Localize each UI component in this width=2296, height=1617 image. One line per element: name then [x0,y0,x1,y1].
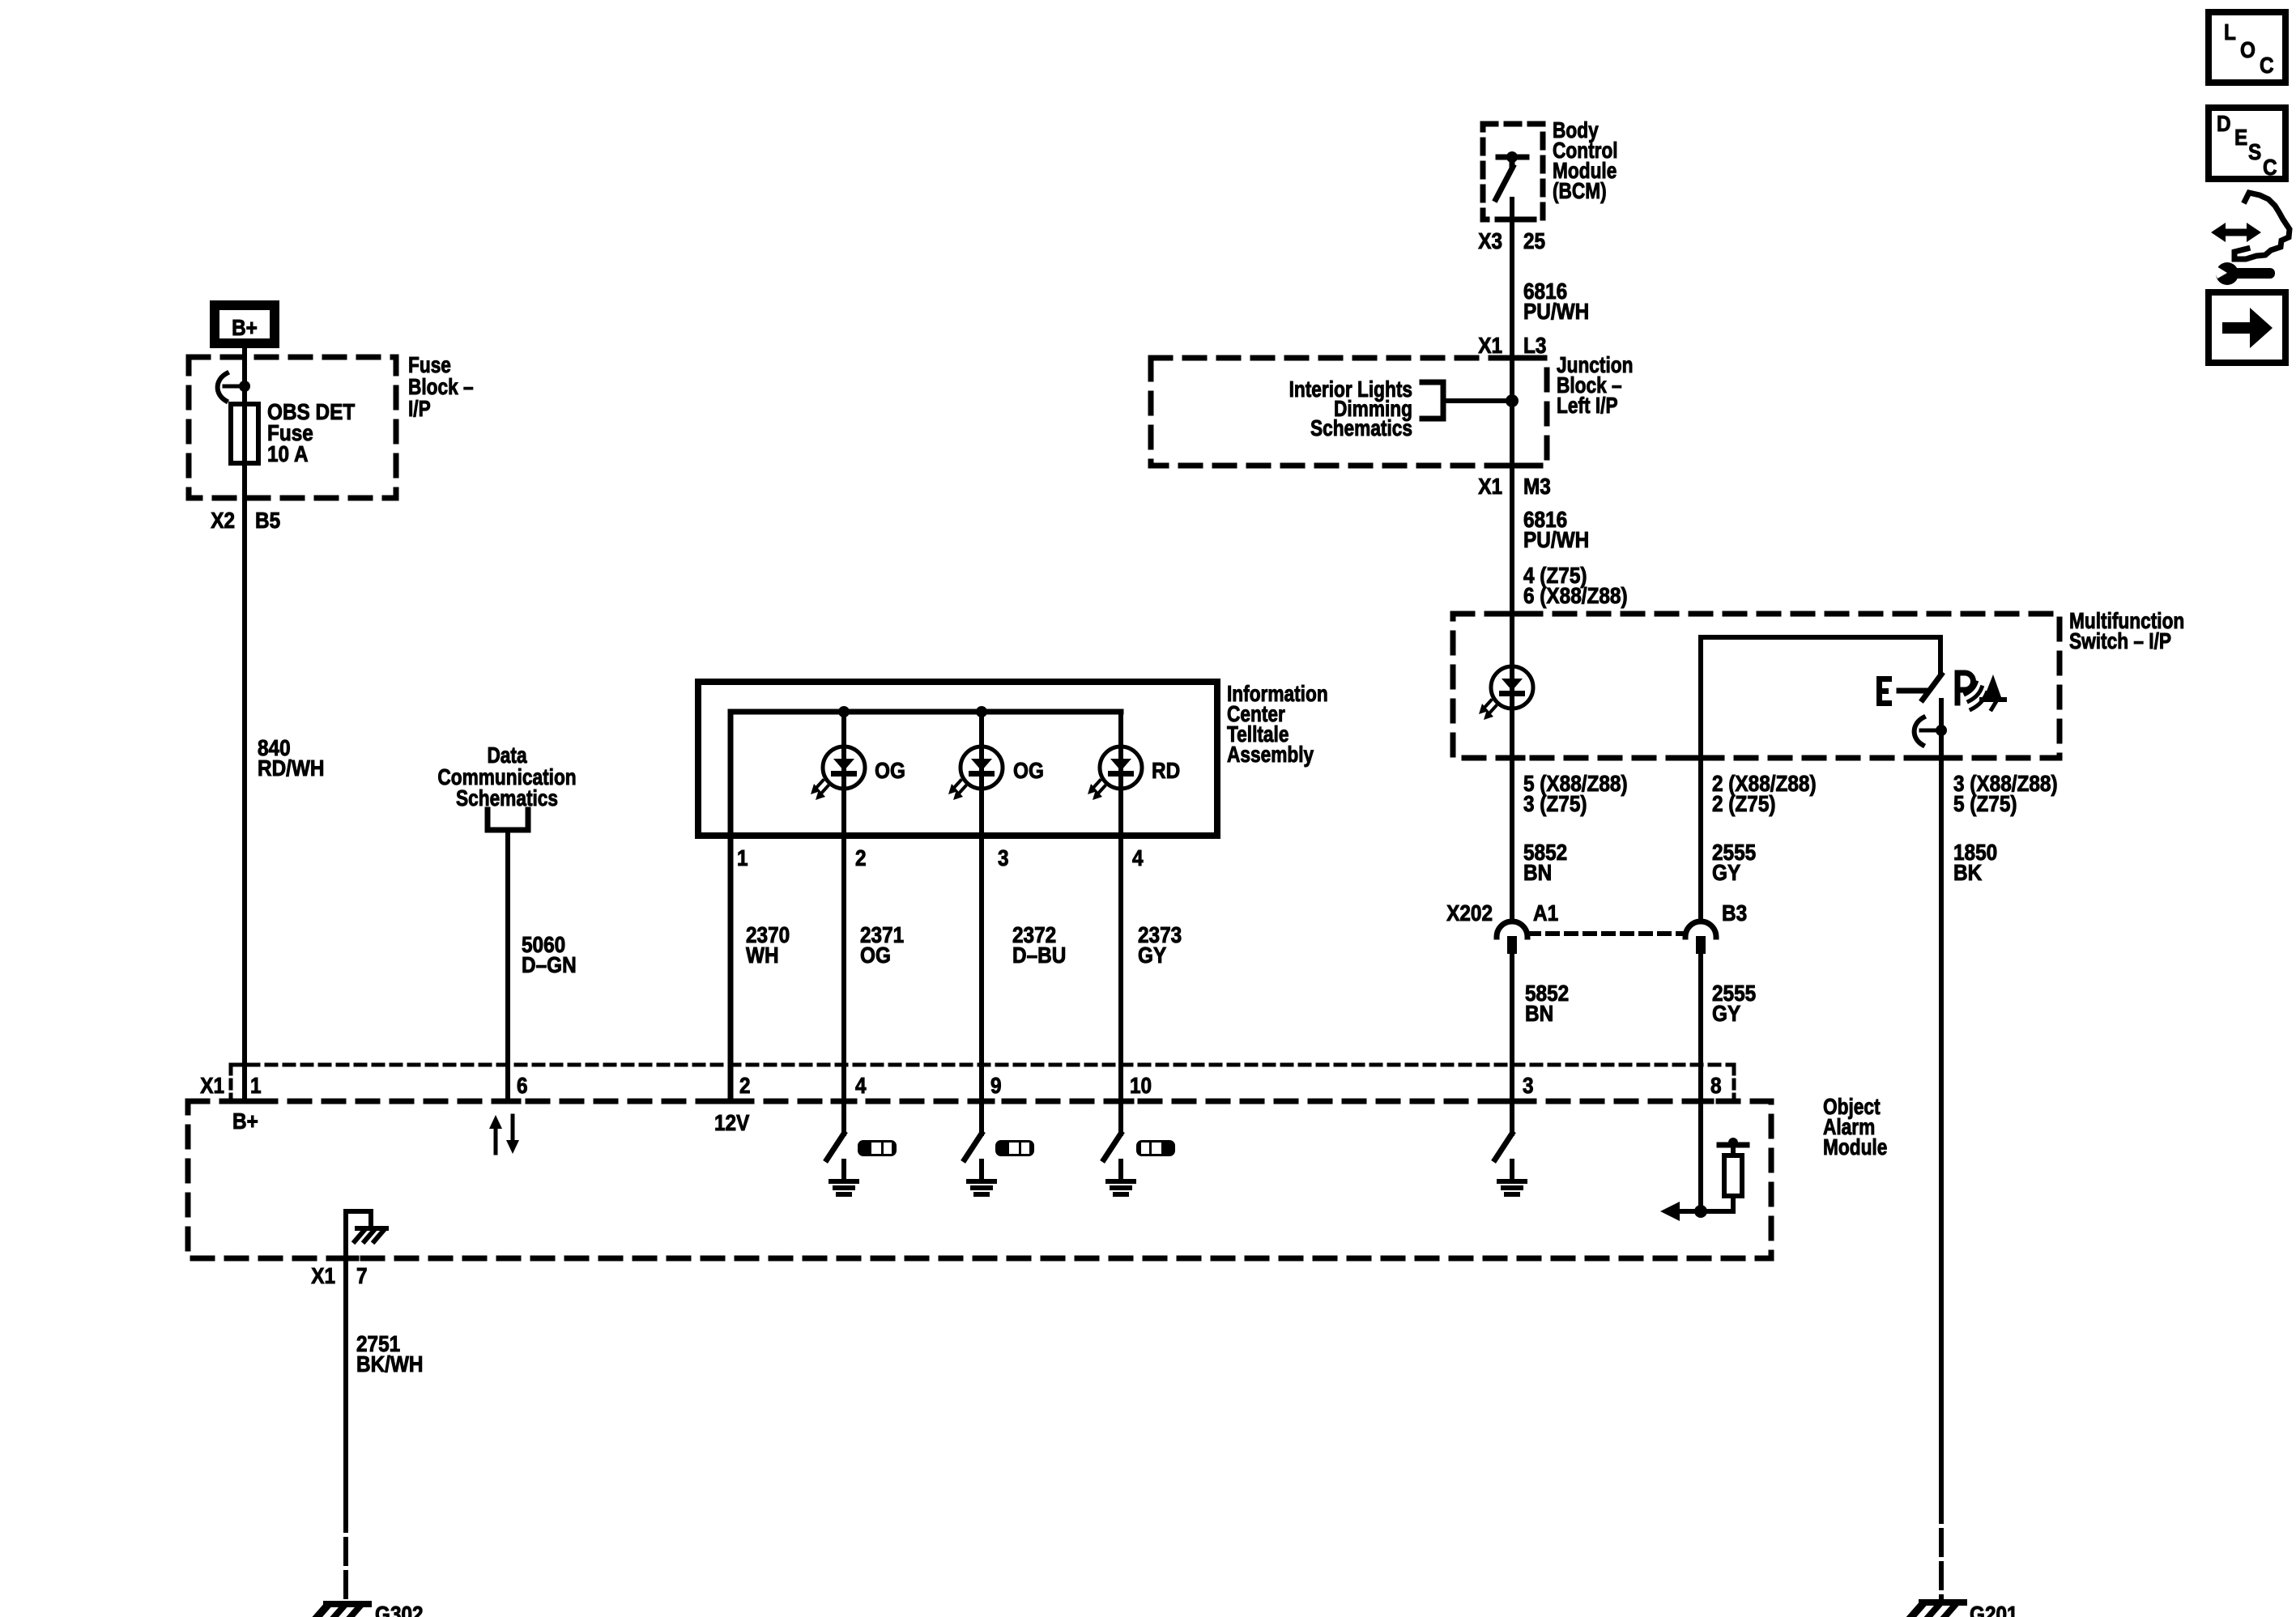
resistor R object alarm [1724,1155,1742,1196]
switch blade multifunction [1923,674,1941,700]
svg-text:O: O [2240,36,2256,62]
svg-text:WH: WH [746,942,779,968]
pin label 4 (Z75) / 6 (X88/Z88) [1523,562,1628,608]
svg-text:1: 1 [737,845,748,870]
svg-text:Schematics: Schematics [1310,416,1412,441]
svg-text:B5: B5 [255,507,280,533]
wire labels 2370 WH / 2371 OG / 2372 D-BU / 2373 GY [746,921,790,968]
svg-text:S: S [2248,138,2261,164]
Object Alarm Module dashed box [188,1101,1771,1258]
node bus/LED1 [838,706,850,717]
vehicle icon [995,1140,1034,1156]
svg-text:9: 9 [990,1072,1002,1098]
svg-text:8: 8 [1710,1072,1722,1098]
wire LED1 to pin 4 [841,712,846,1134]
Junction Block Left I/P dashed box [1151,358,1547,466]
LED3 indicator RD [1088,747,1142,800]
vehicle icon [1136,1140,1175,1156]
node junction block [1506,394,1519,407]
svg-text:I/P: I/P [408,397,431,422]
svg-text:Switch – I/P: Switch – I/P [2069,629,2171,654]
wire LED3 to pin 10 [1118,712,1123,1134]
wire 5852 BN lower [1510,954,1514,1134]
svg-text:25: 25 [1523,228,1545,253]
svg-text:X1: X1 [200,1072,224,1098]
svg-text:OG: OG [875,757,905,783]
svg-text:Assembly: Assembly [1227,743,1314,768]
LED color labels [875,757,1180,783]
label Information Center Telltale Assembly [1227,682,1328,768]
ground G302 [315,1604,368,1617]
internal supply bus [731,712,1121,1101]
svg-text:3: 3 [998,845,1009,870]
label Multifunction Switch - I/P [2069,609,2184,654]
svg-text:7: 7 [356,1262,368,1288]
svg-text:2 (Z75): 2 (Z75) [1712,790,1775,816]
vehicle icon [858,1140,897,1156]
LED1 indicator OG [811,747,865,800]
wire label 6816 PU/WH (lower) [1523,506,1589,552]
svg-text:BK/WH: BK/WH [356,1351,424,1377]
svg-text:X1: X1 [311,1262,335,1288]
wire labels lower 5852 BN / 2555 GY [1525,980,1569,1026]
wire to 1850 BK [1939,700,1944,1497]
svg-text:1: 1 [250,1072,262,1098]
connector label X2 B5 [211,507,280,533]
svg-text:RD: RD [1152,757,1180,783]
multifunction pin labels [1523,770,1628,816]
wire label 5060 D-GN [522,931,577,977]
label Junction Block - Left I/P [1557,353,1633,419]
wire 2555 GY lower [1698,954,1703,1211]
svg-text:PU/WH: PU/WH [1523,526,1589,552]
svg-text:2: 2 [739,1072,751,1098]
wire labels 5852 BN / 2555 GY / 1850 BK [1523,839,1567,885]
node bus/LED2 [976,706,987,717]
telltale pin numbers 1 2 3 4 [737,845,1144,870]
connector label X1 M3 [1478,473,1551,499]
Body Control Module dashed box [1483,124,1543,219]
svg-text:E: E [2234,124,2247,150]
svg-text:X3: X3 [1478,228,1502,253]
bidirectional data arrows pin 6 [489,1115,519,1154]
svg-text:X1: X1 [1478,473,1502,499]
svg-text:BK: BK [1953,859,1982,885]
wire 2751 BK/WH to G302 [343,1258,348,1501]
wire LED2 to pin 9 [979,712,984,1134]
svg-text:L: L [2224,19,2236,45]
svg-text:GY: GY [1138,942,1167,968]
svg-text:L3: L3 [1523,332,1546,358]
svg-text:Module: Module [1823,1135,1887,1160]
svg-text:6: 6 [517,1072,528,1098]
svg-text:A1: A1 [1533,900,1558,926]
wire B+ to fuse block pin B5 (840 RD/WH feed) [242,348,247,1101]
svg-text:D–BU: D–BU [1012,942,1066,968]
svg-text:RD/WH: RD/WH [258,755,325,781]
LED2 indicator OG [948,747,1003,800]
switch to ground pin at x=1384 [1104,1134,1121,1160]
label Object Alarm Module [1823,1095,1887,1160]
svg-text:3 (Z75): 3 (Z75) [1523,790,1587,816]
connector label X1 L3 [1478,332,1546,358]
svg-text:4: 4 [1132,845,1144,870]
Multifunction Switch I/P dashed box [1453,614,2060,758]
connector label X1 7 [311,1262,367,1288]
svg-text:C: C [2263,154,2277,180]
off-page bracket [488,810,528,830]
wire 1850 BK dashed to G201 [1939,1497,1944,1599]
label Data Communication Schematics [437,743,576,811]
connector X202 cavity A1 [1497,921,1527,954]
wire 5060 D-GN [505,830,510,1101]
label Fuse Block - I/P [408,353,474,422]
connector label X3 25 [1478,228,1545,253]
fuse block I/P dashed box [189,357,396,498]
BCM internal switch [1496,151,1527,199]
forward arrow icon box [2209,292,2285,363]
power symbol B+ [210,300,279,348]
label Interior Lights Dimming Schematics [1289,377,1412,441]
LOC icon box [2209,12,2285,83]
svg-text:(BCM): (BCM) [1553,179,1607,204]
svg-text:OG: OG [1013,757,1044,783]
wire label 6816 PU/WH [1523,278,1589,324]
wire BCM X3-25 down to junction block [1510,199,1514,921]
hand with double arrow and wrench icon [2210,193,2290,285]
dashed connector jumper line [1529,931,1684,936]
connector clip inside fuse block [218,373,250,401]
LED backlight in multifunction switch [1479,666,1533,720]
svg-text:Schematics: Schematics [456,786,558,811]
svg-text:BN: BN [1523,859,1552,885]
svg-text:GY: GY [1712,1000,1741,1026]
svg-text:D–GN: D–GN [522,951,577,977]
svg-text:X1: X1 [1478,332,1502,358]
wire label 2751 BK/WH [356,1330,424,1377]
wire interior lights to junction node [1443,398,1512,403]
svg-text:G302: G302 [375,1601,424,1617]
DESC icon box [2209,108,2285,180]
ground G201 [1910,1602,1964,1617]
park assist icon P with waves and cone [1957,673,2004,709]
clip connector on switch output [1915,717,1947,745]
svg-text:12V: 12V [714,1109,750,1135]
Information Center Telltale Assembly box [698,682,1217,836]
switch to ground pin at x=1042 [827,1134,844,1160]
internal ground pin 7 branch [346,1211,386,1258]
wire label 840 RD/WH [258,734,325,781]
svg-text:10 A: 10 A [267,440,309,466]
fuse OBS DET 10A [231,404,258,463]
svg-text:3: 3 [1523,1072,1534,1098]
connector row dotted line X1 [231,1063,1734,1067]
svg-text:GY: GY [1712,859,1741,885]
svg-text:4: 4 [855,1072,867,1098]
svg-text:X2: X2 [211,507,235,533]
switch to ground pin at x=1867 [1495,1134,1512,1160]
off-page bracket interior lights [1422,382,1443,419]
svg-text:2: 2 [855,845,867,870]
svg-text:10: 10 [1130,1072,1152,1098]
mechanical link label E - - [1876,676,1892,706]
svg-text:5 (Z75): 5 (Z75) [1953,790,2017,816]
svg-text:6 (X88/Z88): 6 (X88/Z88) [1523,582,1628,608]
svg-text:B3: B3 [1722,900,1747,926]
svg-text:B+: B+ [232,314,258,340]
svg-text:BN: BN [1525,1000,1553,1026]
connector X202 labels [1446,900,1747,926]
svg-text:M3: M3 [1523,473,1551,499]
svg-text:OG: OG [860,942,891,968]
svg-text:D: D [2217,110,2231,136]
svg-text:B+: B+ [232,1108,258,1134]
connector X202 cavity B3 [1685,921,1716,954]
switch to ground pin at x=1212 [965,1134,982,1160]
svg-text:Left I/P: Left I/P [1557,394,1618,419]
resistor branch pin 8 [1660,1138,1747,1221]
svg-text:C: C [2260,52,2274,78]
label Body Control Module (BCM) [1553,118,1618,204]
svg-text:G201: G201 [1970,1601,2018,1617]
svg-text:PU/WH: PU/WH [1523,298,1589,324]
module pin numbers [250,1072,1722,1098]
svg-text:X202: X202 [1446,900,1493,926]
switch circuit wiring [1701,637,1940,674]
